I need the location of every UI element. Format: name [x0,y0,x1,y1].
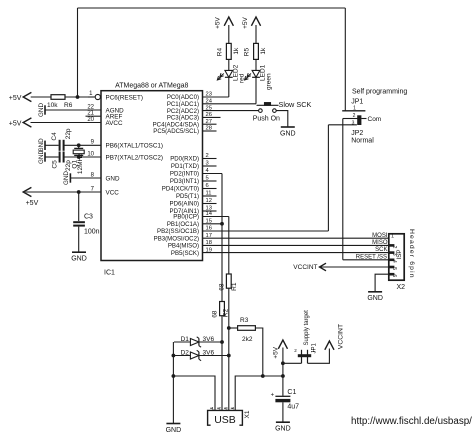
svg-text:PB3(MOSI/OC2): PB3(MOSI/OC2) [154,235,199,242]
svg-text:19: 19 [206,247,212,253]
label Push On [253,115,280,122]
IC1 title label [115,83,188,90]
svg-text:PC6(RESET): PC6(RESET) [106,94,143,101]
IC1 pin 1 PC6(RESET) stub with inversion bubble and pin number [88,91,143,101]
resistor R5 1k [244,43,267,59]
svg-text:14: 14 [206,211,213,217]
svg-text:PC5(ADC5/SCL): PC5(ADC5/SCL) [153,128,199,135]
svg-text:D2: D2 [181,349,190,356]
svg-text:28: 28 [206,126,212,132]
svg-text:USB: USB [214,414,236,426]
net label MISO [372,240,388,246]
svg-text:Push On: Push On [253,115,280,122]
jumper JP2 pin 2 wire [343,113,358,119]
URL caption [351,416,472,427]
svg-text:+5V: +5V [273,346,280,358]
svg-text:IC1: IC1 [104,270,115,277]
IC1 pin 21 AREF stub and label [86,111,123,121]
svg-text:green: green [266,73,273,90]
svg-text:PB7(XTAL2/TOSC2): PB7(XTAL2/TOSC2) [106,154,164,161]
resistor R2 68 [211,302,229,318]
junction +5V node at C1 [281,374,285,378]
svg-text:5: 5 [206,176,209,182]
wire C3 to ground [78,227,80,252]
wire ground bar to C5 left plate [45,156,59,158]
capacitor C4 22p [51,128,72,151]
wire JP2 pin 2 (Com) down to RESET/SS line [342,119,344,260]
IC1 pin 13 PD7(AIN1) wire and label [170,206,217,216]
IC1 pin 6 PD4(XCK/T0) wire and label [162,183,217,193]
ground symbol (USB ground rail) [166,424,182,434]
wire D1 anode from ground rail [174,341,190,343]
svg-text:MISO: MISO [372,240,388,246]
wire top rail (reset net to JP1) [78,7,346,9]
svg-text:Slow SCK: Slow SCK [279,100,312,109]
capacitor C3 100n [73,214,99,236]
IC1 pin 16 PB2(SS/OC1B) wire and label [157,226,328,236]
label X2 [397,284,406,291]
svg-text:PD6(AIN0): PD6(AIN0) [170,201,199,208]
svg-text:2: 2 [353,113,356,119]
svg-text:http://www.fischl.de/usbasp/: http://www.fischl.de/usbasp/ [351,416,472,427]
svg-text:5: 5 [391,267,397,270]
svg-text:red: red [238,73,245,83]
+5V supply arrow (VCC pin 7) [23,187,38,207]
svg-text:PD4(XCK/T0): PD4(XCK/T0) [162,186,199,193]
svg-text:JP2: JP2 [351,130,363,137]
junction ground rail to USB pin 1 branch [172,374,176,378]
IC1 pin 27 PC4(ADC4/SDA) wire and label [153,119,217,128]
jumper JP1 Supply target [294,310,317,363]
ground symbol for C5 [38,150,45,164]
wire VCCINT to X2 pin 5 with arrow [320,263,389,271]
svg-text:AVCC: AVCC [106,120,123,127]
svg-text:PD1(TXD): PD1(TXD) [171,163,199,170]
svg-text:C1: C1 [287,389,296,396]
capacitor C5 22p [52,152,72,172]
svg-text:2: 2 [391,246,397,249]
svg-text:Self programming: Self programming [352,89,407,96]
wire +5V to R4 [228,25,230,43]
svg-text:GND: GND [275,426,291,433]
ISP header X2 pin pads [389,233,394,275]
IC1 pin 25 PC2(ADC2) wire and label [167,105,259,115]
svg-text:C4: C4 [51,132,58,141]
svg-text:20: 20 [87,117,94,123]
svg-text:2k2: 2k2 [242,336,253,343]
svg-text:68: 68 [211,310,218,318]
svg-text:VCCINT: VCCINT [338,324,345,349]
svg-text:X2: X2 [397,284,406,291]
label Com and tick [361,116,381,123]
svg-text:23: 23 [206,92,212,98]
wire C5 to IC pin 10 with crystal junction [77,155,81,159]
ground symbol (X2) [367,292,383,302]
wire D+ net vertical (PB0 to R1) [228,217,230,275]
svg-text:R1: R1 [231,282,238,291]
wire ground bar to C4 left plate [45,144,59,146]
jumper JP2 block [357,115,361,125]
svg-text:3: 3 [206,161,209,167]
wire LED1 to IC1 pin 24 [255,77,257,104]
IC1 pin 3 PD1(TXD) wire and label [171,161,217,171]
ground symbol for C4 [38,138,45,152]
IC IC1 ATMega88/ATMega8 body [101,91,203,261]
svg-text:4u7: 4u7 [287,404,299,411]
svg-text:GND: GND [367,295,383,302]
wire USB pin 4 to +5V node [235,376,283,410]
wire push button to ground [276,111,288,127]
svg-text:PD5(T1): PD5(T1) [176,193,199,200]
svg-text:1k: 1k [233,47,240,55]
USB connector X1 pin number marks [210,405,235,410]
svg-text:SCK: SCK [375,247,387,253]
wire D1 cathode to D- net [199,341,222,343]
wire +5V arrow to node [281,348,285,377]
svg-text:+5V: +5V [9,121,22,128]
wire D- net vertical (PD2/PB1 to R2) [221,174,223,302]
resistor R4 1k [217,43,240,59]
wire +5V to resistor R6 [31,96,51,98]
IC1 pin 23 PC0(ADC0) wire and label [167,92,229,102]
svg-text:100n: 100n [84,229,100,236]
junction R3 branch on +5V node [261,374,265,378]
IC1 pin 5 PD3(INT1) wire and label [170,176,217,186]
IC1 pin 8 GND and label [70,172,120,182]
svg-text:+5V: +5V [9,95,22,102]
svg-text:Supply target: Supply target [304,310,310,346]
IC1 pin 7 VCC wire and label [26,186,120,196]
wire C4 to IC pin 9 with crystal junction [77,143,81,147]
svg-text:R6: R6 [64,102,73,109]
resistor R6 10k [47,95,73,109]
+5V supply arrow (LED2 branch) [215,16,234,28]
wire RESET/SS to X2 pin 4 [343,259,389,261]
svg-text:PD3(INT1): PD3(INT1) [170,178,199,185]
wire R3 to +5V node [255,328,262,376]
svg-text:R4: R4 [217,48,224,57]
svg-text:PB1(OC1A): PB1(OC1A) [167,221,199,228]
net label RESET /SS [356,254,387,260]
wire +5V node to JP1 supply jumper [283,362,302,364]
jumper JP1 pin 1 pad [342,106,365,112]
svg-text:VCCINT: VCCINT [293,264,317,271]
svg-text:+5V: +5V [242,16,249,28]
wire top rail down to JP1 pin 1 [344,8,346,111]
svg-text:GND: GND [38,150,45,164]
junction R3 to D+ net [227,326,231,330]
svg-text:68: 68 [219,283,226,291]
+5V supply arrow (reset pull-up) [9,92,32,102]
IC1 reference designator [104,270,115,277]
ground symbol (C3) [71,252,87,262]
junction D1 to D- net [220,340,224,344]
svg-text:15: 15 [206,219,212,225]
+5V supply arrow (USB supply) [273,340,288,359]
wire X2 pin 6 to ground [375,274,389,291]
LED LED1 green [245,64,273,90]
IC1 pin 15 PB1(OC1A) wire and label [167,219,222,229]
net label SCK [375,247,387,253]
IC1 pin 14 PB0(ICP) wire and label [173,211,229,221]
USB connector X1 body [208,410,251,426]
wire C1 to ground [282,402,284,422]
IC1 pin 9 PB6(XTAL1/TOSC1) and label [65,140,164,150]
svg-text:6: 6 [391,274,397,277]
IC1 pin 12 PD6(AIN0) wire and label [170,198,217,208]
IC1 pin 4 PD2(INT0) wire and label [170,168,222,178]
svg-text:16: 16 [206,226,212,232]
zener diode D1 3V6 [181,336,215,347]
label Self programming [352,89,407,96]
IC1 pin 24 PC1(ADC1) wire and label [167,99,256,109]
svg-text:+5V: +5V [26,200,39,207]
wire R6 to IC1 pin 1 with junction on reset net [65,95,88,99]
IC1 pin 26 PC3(ADC3) wire and label [167,112,221,122]
svg-text:1k: 1k [260,47,267,55]
svg-text:3: 3 [352,120,355,126]
push button Slow SCK [257,103,279,113]
IC1 pin 10 PB7(XTAL2/TOSC2) and label [65,151,164,161]
svg-text:JP1: JP1 [351,98,363,105]
svg-text:X1: X1 [244,410,251,418]
wire R4 to LED2 [228,59,230,70]
ground symbol (C1) [275,422,291,432]
resistor R1 68 [219,274,239,291]
IC1 pin 20 AVCC wire and label [31,117,123,127]
svg-text:Com: Com [368,116,382,123]
wire +5V node to C1 [282,376,284,396]
svg-text:2: 2 [206,153,209,159]
svg-text:+5V: +5V [215,16,222,28]
svg-text:22p: 22p [65,128,72,139]
svg-text:22: 22 [87,104,94,110]
ground symbol (IC1 pin 8) [63,171,70,185]
svg-text:18: 18 [206,240,212,246]
LED LED2 red [217,64,245,83]
svg-text:21: 21 [87,111,94,117]
IC1 pin 18 PB4(MISO) wire and label [168,240,389,250]
ground symbol (AGND) [38,103,45,117]
net label MOSI [372,233,388,239]
junction D2 to D+ net [227,354,231,358]
svg-text:Header 6pin: Header 6pin [408,229,415,279]
label Slow SCK [279,100,312,109]
svg-text:GND: GND [106,175,120,182]
wire VCC net down to C3 [78,192,80,221]
wire R1 to USB pin 3 [228,288,230,410]
wire D2 cathode to D+ net [199,355,229,357]
junction on D- net at IC1 pin 15 [220,222,224,226]
svg-text:MOSI: MOSI [372,233,388,239]
IC1 pin 11 PD5(T1) wire and label [176,191,217,201]
IC1 pin 19 PB5(SCK) wire and label [171,247,389,256]
jumper JP2 pin 3 wire [328,120,357,126]
svg-text:D1: D1 [181,336,190,343]
wire +5V node to JP1 left pin [0,0,1,1]
+5V supply arrow (LED1 branch) [242,16,261,28]
svg-text:GND: GND [38,103,45,117]
label Normal [351,137,374,144]
svg-text:26: 26 [206,112,212,118]
IC1 pin 17 PB3(MOSI/OC2) wire and label [154,233,389,243]
IC1 pin 22 AGND stub and label [45,104,124,114]
VCCINT supply arrow (supply jumper) [325,324,345,350]
ground symbol (push button) [280,127,296,137]
svg-text:Normal: Normal [351,137,374,144]
+5V supply arrow (AVCC) [9,118,32,128]
svg-text:12: 12 [206,198,212,204]
svg-text:C5: C5 [52,160,59,169]
svg-text:10: 10 [87,151,94,157]
wire reset net vertical to top rail [77,8,79,97]
svg-text:25: 25 [206,105,212,111]
capacitor C1 4u7 electrolytic [271,389,300,411]
wire ground rail (D1/D2 to GND) [172,342,174,423]
crystal Q1 12MHz [71,145,84,174]
svg-text:PB5(SCK): PB5(SCK) [171,250,199,257]
resistor R3 2k2 [238,317,256,343]
svg-text:PD2(INT0): PD2(INT0) [170,171,199,178]
junction D2 on ground rail [172,354,176,358]
svg-text:PB6(XTAL1/TOSC1): PB6(XTAL1/TOSC1) [106,143,164,150]
label Header 6pin (rotated) [408,229,415,279]
svg-text:ATMega88 or ATMega8: ATMega88 or ATMega8 [115,83,188,90]
svg-text:27: 27 [206,119,212,125]
wire ground rail to USB pin 1 [173,376,215,410]
svg-text:ISP: ISP [396,250,403,260]
svg-text:VCC: VCC [106,189,120,196]
svg-text:PB0(ICP): PB0(ICP) [173,214,199,221]
svg-text:12MHz: 12MHz [77,154,84,175]
net label VCCINT (header) [293,264,317,271]
svg-text:GND: GND [63,171,70,185]
wire JP1 to VCCINT arrow [308,349,330,364]
svg-text:1: 1 [391,233,394,239]
wire JP2 pin 3 down to IC1 pin 16 [327,125,329,231]
svg-text:10k: 10k [47,102,58,109]
wire +5V to R5 [255,25,257,43]
svg-text:JP1: JP1 [312,342,318,353]
svg-text:17: 17 [206,233,212,239]
wire D2 anode from ground rail [173,355,190,357]
svg-text:GND: GND [166,427,182,434]
svg-text:GND: GND [71,256,87,263]
wire R5 to LED1 [255,59,257,70]
label JP1 [351,98,363,105]
svg-text:C3: C3 [84,214,93,221]
svg-text:PD0(RXD): PD0(RXD) [170,156,199,163]
label ISP (rotated) [396,250,403,260]
IC1 pin 28 PC5(ADC5/SCL) wire and label [153,126,216,136]
svg-text:PB4(MISO): PB4(MISO) [168,243,199,250]
IC1 pin 2 PD0(RXD) wire and label [170,153,216,163]
svg-text:PB2(SS/OC1B): PB2(SS/OC1B) [157,228,199,235]
svg-text:1: 1 [353,106,356,112]
svg-text:RESET /SS: RESET /SS [356,254,387,260]
svg-text:R3: R3 [240,317,249,324]
svg-text:GND: GND [280,130,296,137]
svg-text:24: 24 [206,99,213,105]
svg-text:R5: R5 [244,48,251,57]
zener diode D2 3V6 [181,349,215,360]
junction VCC net to C3 [77,190,81,194]
svg-text:6: 6 [206,183,209,189]
svg-text:+: + [271,393,275,399]
wire D+ net to R3 [229,327,238,329]
ISP header X2 pin numbers [391,246,397,278]
wire R2 to USB pin 2 [221,316,223,411]
svg-text:11: 11 [206,191,212,197]
wire LED2 to IC1 pin 23 [228,77,230,97]
ISP header X2 body [389,234,404,280]
label JP2 [351,130,363,137]
